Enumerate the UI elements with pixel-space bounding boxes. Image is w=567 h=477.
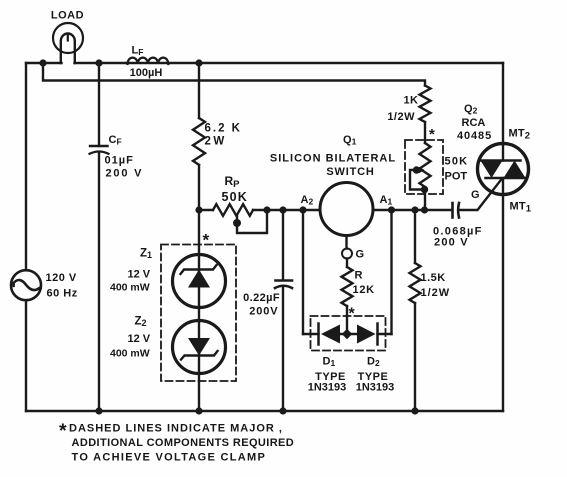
svg-text:SWITCH: SWITCH bbox=[326, 166, 374, 178]
lamp LOAD bbox=[53, 23, 83, 63]
dashed box 50K POT bbox=[405, 140, 443, 194]
AC source 120V 60Hz bbox=[11, 270, 41, 300]
svg-text:DASHED LINES INDICATE MAJOR ,: DASHED LINES INDICATE MAJOR , bbox=[69, 423, 283, 435]
svg-text:12K: 12K bbox=[353, 284, 375, 296]
node junction CF top bbox=[95, 59, 102, 66]
node bottom CF junction bbox=[95, 407, 102, 414]
svg-text:1N3193: 1N3193 bbox=[308, 382, 347, 394]
triac Q2 bbox=[478, 144, 529, 195]
node pot bottom bus junction bbox=[421, 206, 428, 213]
svg-text:200V: 200V bbox=[249, 306, 278, 318]
svg-text:A2: A2 bbox=[301, 194, 314, 207]
node bottom 1.5K junction bbox=[411, 407, 418, 414]
svg-text:R: R bbox=[355, 270, 363, 282]
node diode midpoint diamond bbox=[342, 329, 352, 339]
svg-text:G: G bbox=[471, 189, 480, 201]
svg-text:200 V: 200 V bbox=[434, 237, 469, 249]
svg-text:100µH: 100µH bbox=[130, 67, 163, 79]
node 0.22uF top junction bbox=[279, 206, 286, 213]
node junction 6.2K top bbox=[195, 59, 202, 66]
wire between diodes bbox=[340, 333, 357, 335]
svg-text:0.22µF: 0.22µF bbox=[243, 292, 280, 304]
svg-text:POT: POT bbox=[445, 171, 468, 183]
wire right rail bbox=[502, 63, 504, 411]
diode D1 bbox=[303, 324, 340, 345]
svg-text:A1: A1 bbox=[380, 194, 393, 207]
svg-text:6.2 K: 6.2 K bbox=[205, 123, 243, 135]
svg-text:CF: CF bbox=[109, 134, 122, 147]
svg-text:1N3193: 1N3193 bbox=[356, 382, 395, 394]
wire main bus bbox=[199, 179, 502, 211]
dashed box zeners bbox=[161, 245, 236, 382]
svg-text:MT2: MT2 bbox=[509, 128, 531, 142]
svg-text:12 V: 12 V bbox=[128, 269, 151, 281]
svg-text:D1: D1 bbox=[323, 356, 336, 369]
wire left rail bbox=[25, 63, 27, 411]
svg-text:*: * bbox=[203, 231, 210, 250]
capacitor 0.22uF bbox=[275, 210, 292, 411]
svg-text:Z2: Z2 bbox=[135, 316, 147, 329]
svg-text:RCA: RCA bbox=[462, 117, 486, 129]
zener Z2 bbox=[173, 321, 226, 374]
svg-text:TO ACHIEVE VOLTAGE CLAMP: TO ACHIEVE VOLTAGE CLAMP bbox=[72, 452, 267, 464]
wire trigger branch to 1K bbox=[43, 63, 425, 86]
diode D2 bbox=[357, 324, 392, 345]
svg-text:ADDITIONAL COMPONENTS REQUIRED: ADDITIONAL COMPONENTS REQUIRED bbox=[72, 437, 295, 449]
svg-text:D2: D2 bbox=[367, 356, 380, 369]
svg-text:Q1: Q1 bbox=[343, 134, 357, 147]
svg-text:40485: 40485 bbox=[457, 130, 492, 142]
svg-text:1/2W: 1/2W bbox=[421, 287, 451, 299]
svg-text:400 mW: 400 mW bbox=[110, 348, 150, 360]
svg-text:MT1: MT1 bbox=[510, 201, 532, 215]
capacitor 0.068uF bbox=[453, 203, 460, 218]
wire top rail left segment bbox=[26, 62, 62, 64]
svg-text:Q2: Q2 bbox=[464, 103, 478, 116]
resistor 1K 1/2W bbox=[420, 86, 431, 144]
node D1 branch top junction bbox=[299, 206, 306, 213]
inductor LF bbox=[128, 58, 169, 64]
svg-text:60 Hz: 60 Hz bbox=[47, 288, 78, 300]
svg-text:1/2W: 1/2W bbox=[387, 111, 415, 123]
svg-text:200 V: 200 V bbox=[106, 168, 144, 180]
svg-text:LF: LF bbox=[132, 45, 144, 58]
svg-text:*: * bbox=[59, 420, 67, 442]
svg-text:50K: 50K bbox=[222, 190, 249, 204]
svg-text:1.5K: 1.5K bbox=[421, 272, 446, 284]
resistor 1.5K 1/2W bbox=[410, 210, 421, 411]
wire D2 branch vertical bbox=[390, 210, 392, 334]
svg-text:SILICON BILATERAL: SILICON BILATERAL bbox=[270, 153, 396, 165]
svg-text:2W: 2W bbox=[205, 136, 227, 148]
svg-text:120 V: 120 V bbox=[46, 272, 77, 284]
svg-text:50K: 50K bbox=[445, 156, 469, 168]
svg-text:400 mW: 400 mW bbox=[110, 282, 150, 294]
svg-text:1K: 1K bbox=[403, 95, 418, 107]
SBS Q1 circle bbox=[320, 183, 373, 236]
node bottom 0.22uF junction bbox=[279, 407, 286, 414]
svg-text:LOAD: LOAD bbox=[51, 10, 84, 22]
resistor R 12K bbox=[342, 259, 353, 331]
node 1.5K top junction bbox=[411, 206, 418, 213]
node bottom zener junction bbox=[195, 407, 202, 414]
wire bottom rail bbox=[26, 410, 503, 412]
svg-text:01µF: 01µF bbox=[105, 155, 134, 167]
potentiometer RP 50K bbox=[213, 204, 267, 233]
node RP right junction bbox=[263, 206, 270, 213]
wire top rail right segment bbox=[75, 62, 504, 64]
svg-text:*: * bbox=[349, 306, 356, 323]
potentiometer 50K POT bbox=[410, 143, 431, 210]
svg-text:Z1: Z1 bbox=[140, 248, 152, 261]
node main bus left bbox=[195, 206, 202, 213]
wire D1 branch vertical bbox=[302, 210, 304, 334]
svg-text:G: G bbox=[356, 249, 365, 261]
node A1 junction bbox=[388, 206, 395, 213]
svg-text:12 V: 12 V bbox=[128, 333, 151, 345]
node junction top-left bbox=[39, 59, 46, 66]
capacitor CF bbox=[90, 63, 109, 411]
dashed box diodes D1 D2 bbox=[311, 316, 386, 351]
node pot wiper dot bbox=[413, 166, 420, 173]
zener Z1 bbox=[173, 255, 226, 308]
wire zener branch vertical bbox=[198, 210, 200, 411]
node pot bottom dot bbox=[421, 186, 428, 193]
SBS Q1 gate terminal circle bbox=[342, 236, 352, 259]
resistor 6.2K 2W bbox=[193, 63, 205, 210]
node RP wiper dot bbox=[233, 219, 241, 227]
